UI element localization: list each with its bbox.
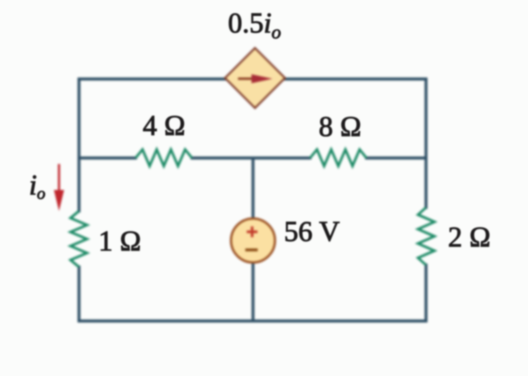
svg-text:1 Ω: 1 Ω xyxy=(99,227,142,258)
svg-text:8 Ω: 8 Ω xyxy=(319,112,362,143)
svg-text:56 V: 56 V xyxy=(284,217,340,248)
svg-text:2 Ω: 2 Ω xyxy=(448,223,491,254)
svg-text:4 Ω: 4 Ω xyxy=(143,111,186,142)
